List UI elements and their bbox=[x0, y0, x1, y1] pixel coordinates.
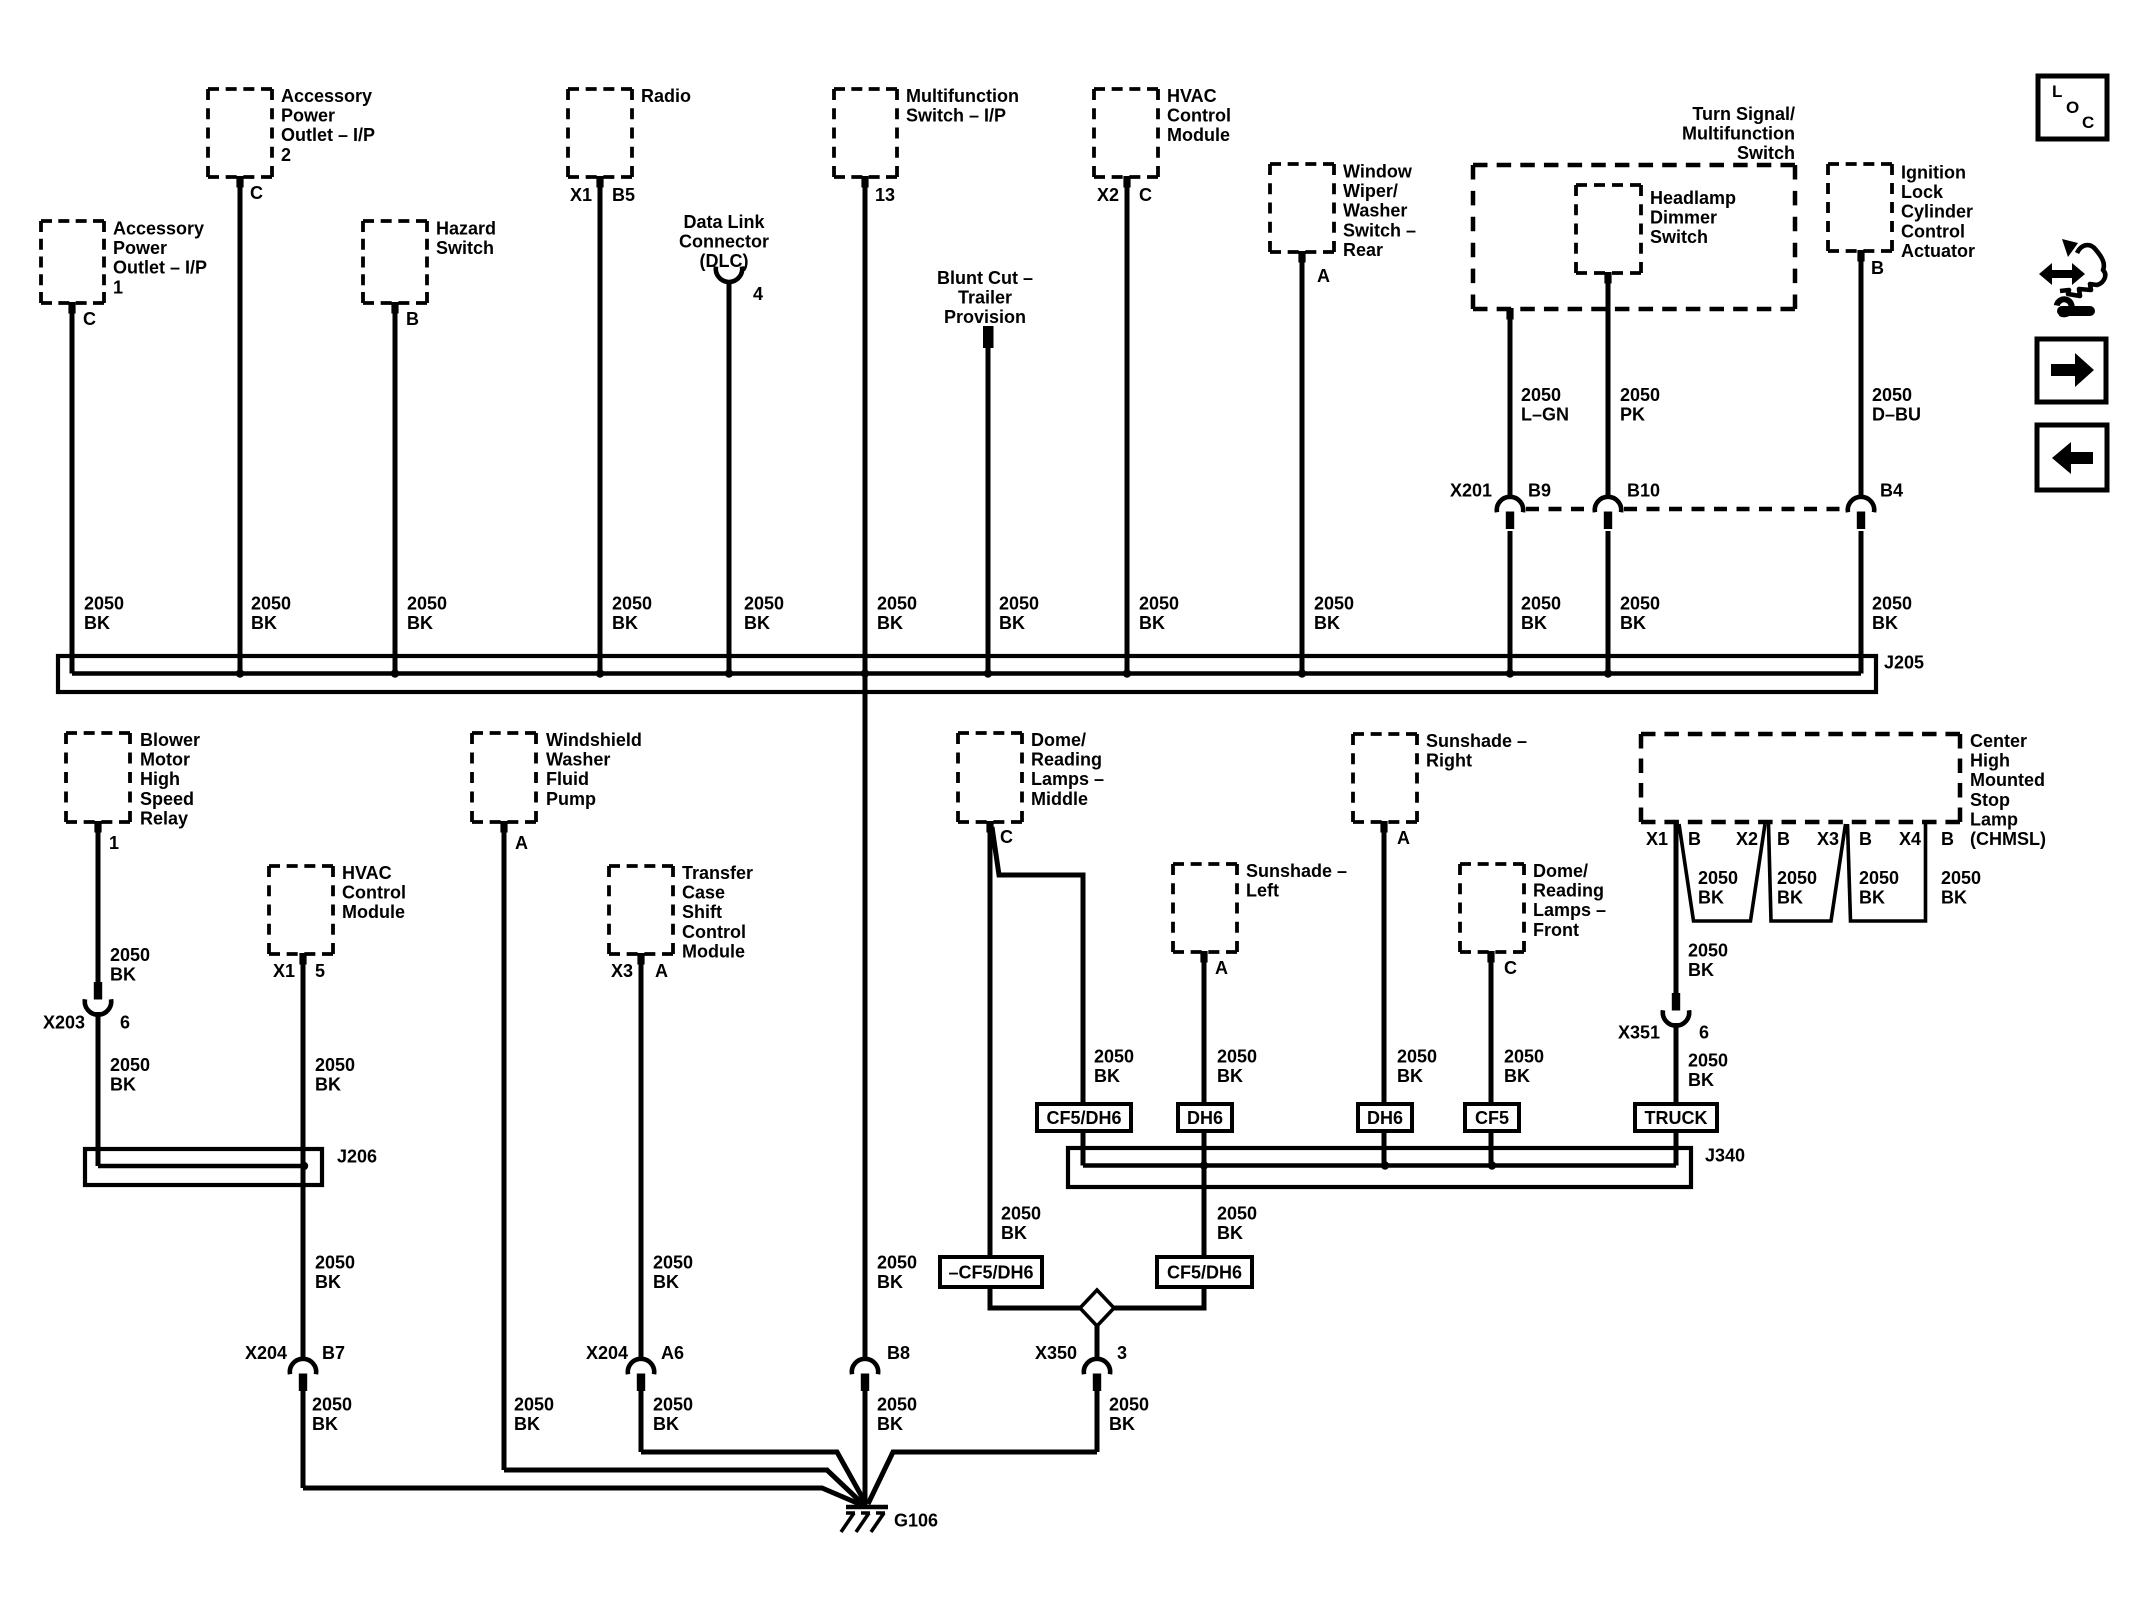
connector X201 cavity B10 bbox=[1595, 497, 1621, 512]
svg-text:IgnitionLockCylinderControlAct: IgnitionLockCylinderControlActuator bbox=[1901, 163, 1975, 261]
wire from lower CF5/DH6 to splice diamond X350 bbox=[1114, 1287, 1204, 1308]
svg-text:X3: X3 bbox=[611, 961, 633, 981]
svg-text:B10: B10 bbox=[1627, 481, 1660, 501]
connector box Center High Mounted Stop Lamp (CHMSL) bbox=[1641, 732, 1960, 737]
wire 2050 BK from dome middle lamp down to -CF5/DH6 bbox=[986, 821, 993, 833]
svg-text:B: B bbox=[1941, 829, 1954, 849]
option label TRUCK bbox=[1635, 1104, 1717, 1131]
wire 2050 BK group funnel 2 (X2-B to X3) bbox=[1769, 824, 1846, 921]
svg-text:B9: B9 bbox=[1528, 481, 1551, 501]
connector box Multifunction Switch - I/P bbox=[834, 87, 897, 91]
svg-text:4: 4 bbox=[753, 284, 763, 304]
svg-text:C: C bbox=[1504, 958, 1517, 978]
svg-text:X201: X201 bbox=[1450, 481, 1492, 501]
jump arrow icon bbox=[2039, 239, 2105, 314]
svg-text:B7: B7 bbox=[322, 1343, 345, 1363]
connector box Windshield Washer Fluid Pump bbox=[472, 731, 536, 735]
svg-text:C: C bbox=[1000, 827, 1013, 847]
connector box Dome/Reading Lamps - Middle bbox=[958, 731, 1022, 735]
wire 2050 BK from B8 to ground G106 bbox=[863, 1391, 868, 1508]
connector box Sunshade - Left bbox=[1173, 862, 1237, 866]
svg-text:DH6: DH6 bbox=[1187, 1108, 1223, 1128]
junction dot on J206 bbox=[300, 1162, 308, 1170]
splice diamond above X350 bbox=[1080, 1290, 1114, 1326]
svg-text:L: L bbox=[2052, 82, 2062, 101]
in-line connector X351 cavity 6 bbox=[1672, 993, 1680, 1011]
connector box Ignition Lock Cylinder Control Actuator bbox=[1828, 162, 1892, 166]
wire 2050 BK from dome front lamp to CF5 box bbox=[1487, 951, 1494, 963]
svg-text:X3: X3 bbox=[1817, 829, 1839, 849]
svg-text:–CF5/DH6: –CF5/DH6 bbox=[948, 1262, 1033, 1282]
junction dots on J205 bbox=[236, 669, 244, 677]
svg-text:CF5/DH6: CF5/DH6 bbox=[1046, 1108, 1121, 1128]
svg-text:B4: B4 bbox=[1880, 481, 1903, 501]
wire 2050 BK group funnel 3 (X3-B to X4) bbox=[1848, 822, 1926, 921]
svg-text:X1: X1 bbox=[570, 185, 592, 205]
wire 2050 BK from HVAC Control Module through J206 to X204 B7 bbox=[299, 953, 306, 965]
forward arrow legend box bbox=[2037, 339, 2106, 402]
svg-text:A6: A6 bbox=[661, 1343, 684, 1363]
option label DH6 (left) bbox=[1178, 1104, 1232, 1131]
svg-text:3: 3 bbox=[1117, 1343, 1127, 1363]
svg-text:B: B bbox=[406, 309, 419, 329]
in-line connector X204 cavity B7 bbox=[290, 1359, 316, 1374]
svg-text:X204: X204 bbox=[586, 1343, 628, 1363]
wire 2050 BK from Hazard Switch to J205 bbox=[391, 302, 398, 314]
wire 2050 BK from Radio to J205 bbox=[596, 176, 603, 188]
svg-text:B8: B8 bbox=[887, 1343, 910, 1363]
component box Headlamp Dimmer Switch (inside turn signal switch) bbox=[1576, 183, 1641, 187]
wire 2050 BK from HVAC Control Module to J205 bbox=[1123, 176, 1130, 188]
svg-text:X203: X203 bbox=[43, 1013, 85, 1033]
svg-text:CF5: CF5 bbox=[1475, 1108, 1509, 1128]
svg-text:6: 6 bbox=[1699, 1023, 1709, 1043]
svg-text:C: C bbox=[250, 183, 263, 203]
wire from TRUCK box to J340 bbox=[1674, 1131, 1679, 1166]
wire 2050 BK from X201 B9 to J205 bbox=[1508, 531, 1513, 674]
splice pack J205 bbox=[58, 656, 1876, 692]
wire 2050 BK from transfer case module to X204 A6 bbox=[637, 953, 644, 965]
svg-text:Radio: Radio bbox=[641, 86, 691, 106]
svg-text:X2: X2 bbox=[1097, 185, 1119, 205]
wire 2050 BK from Window Wiper/Washer Switch to J205 bbox=[1298, 251, 1305, 263]
option label CF5/DH6 (lower) bbox=[1157, 1257, 1252, 1287]
wire 2050 BK from X204 A6 to ground G106 bbox=[639, 1391, 644, 1452]
connector box Window Wiper/Washer Switch - Rear bbox=[1270, 162, 1334, 166]
in-line connector X201 dashed link bbox=[1526, 507, 1592, 512]
svg-text:X350: X350 bbox=[1035, 1343, 1077, 1363]
wire 2050 BK from X201 B4 to J205 bbox=[1859, 531, 1864, 674]
wire from splice diamond to X350 bbox=[1095, 1326, 1100, 1360]
wire 2050 BK from Accessory Power Outlet 1 to J205 bbox=[68, 302, 75, 314]
junction dots on J340 bbox=[1200, 1161, 1208, 1169]
connector box HVAC Control Module (top) bbox=[1094, 87, 1158, 91]
connector box Sunshade - Right bbox=[1353, 732, 1417, 736]
svg-text:X1: X1 bbox=[273, 961, 295, 981]
connector box Radio bbox=[568, 87, 632, 91]
wire from CF5 to J340 bbox=[1489, 1131, 1494, 1166]
in-line connector X350 cavity 3 bbox=[1084, 1359, 1110, 1374]
svg-text:X351: X351 bbox=[1618, 1023, 1660, 1043]
svg-text:A: A bbox=[1397, 828, 1410, 848]
option label -CF5/DH6 bbox=[940, 1257, 1042, 1287]
svg-text:A: A bbox=[1317, 266, 1330, 286]
wire from DH6 through J340 to CF5/DH6 bbox=[1202, 1131, 1207, 1257]
wire 2050 BK from CHMSL X1-B to X351 bbox=[1674, 822, 1679, 994]
option label CF5/DH6 bbox=[1037, 1104, 1131, 1131]
svg-text:HazardSwitch: HazardSwitch bbox=[436, 219, 496, 259]
svg-text:B: B bbox=[1871, 258, 1884, 278]
connector box Accessory Power Outlet - I/P 2 bbox=[208, 87, 272, 91]
connector X201 cavity B9 bbox=[1497, 497, 1523, 512]
option label CF5 bbox=[1465, 1104, 1519, 1131]
in-line connector X204 cavity A6 bbox=[628, 1359, 654, 1374]
svg-text:X204: X204 bbox=[245, 1343, 287, 1363]
wire 2050 BK from X351 to TRUCK option box bbox=[1674, 1023, 1679, 1104]
backward arrow legend box bbox=[2037, 425, 2107, 490]
svg-text:C: C bbox=[1139, 185, 1152, 205]
wire 2050 BK from blower relay to X203 bbox=[94, 821, 101, 833]
svg-text:B: B bbox=[1688, 829, 1701, 849]
svg-text:6: 6 bbox=[120, 1013, 130, 1033]
svg-text:X1: X1 bbox=[1646, 829, 1668, 849]
svg-text:X2: X2 bbox=[1736, 829, 1758, 849]
svg-text:C: C bbox=[2082, 113, 2094, 132]
svg-text:5: 5 bbox=[315, 961, 325, 981]
svg-text:A: A bbox=[515, 833, 528, 853]
svg-text:13: 13 bbox=[875, 185, 895, 205]
svg-text:O: O bbox=[2066, 98, 2079, 117]
wire 2050 BK from Multifunction Switch through J205 to B8 bbox=[861, 176, 868, 188]
connector box Dome/Reading Lamps - Front bbox=[1460, 862, 1524, 866]
svg-text:1: 1 bbox=[109, 833, 119, 853]
connector box HVAC Control Module (second row) bbox=[269, 864, 333, 868]
wire 2050 BK from X350 to ground G106 bbox=[1095, 1391, 1100, 1452]
svg-text:DH6: DH6 bbox=[1367, 1108, 1403, 1128]
svg-text:C: C bbox=[83, 309, 96, 329]
wire 2050 D-BU from Ignition Lock Cylinder to X201 B4 bbox=[1857, 250, 1864, 262]
svg-text:A: A bbox=[655, 961, 668, 981]
splice pack J206 bbox=[85, 1149, 322, 1185]
svg-text:X4: X4 bbox=[1899, 829, 1921, 849]
wire 2050 BK from X204 B7 to ground G106 bbox=[301, 1391, 306, 1488]
connector box Hazard Switch bbox=[363, 219, 427, 223]
wire 2050 BK from DLC to J205 bbox=[727, 281, 732, 674]
wire 2050 BK from sunshade right to DH6 box bbox=[1380, 821, 1387, 833]
connector box Accessory Power Outlet - I/P 1 bbox=[41, 219, 104, 223]
svg-text:J205: J205 bbox=[1884, 653, 1924, 673]
wire 2050 PK from Headlamp Dimmer Switch to X201 B10 bbox=[1604, 272, 1611, 284]
wire from DH6 right to J340 bbox=[1382, 1131, 1387, 1166]
wire 2050 BK from sunshade left to DH6 box bbox=[1200, 951, 1207, 963]
connector X201 cavity B4 bbox=[1848, 497, 1874, 512]
svg-text:B: B bbox=[1859, 829, 1872, 849]
option label DH6 (right) bbox=[1358, 1104, 1412, 1131]
wire 2050 BK from blunt cut to J205 bbox=[986, 347, 991, 674]
svg-text:G106: G106 bbox=[894, 1511, 938, 1531]
wire 2050 L-GN from Turn Signal Switch to X201 B9 bbox=[1506, 308, 1513, 320]
wire 2050 BK from X201 B10 to J205 bbox=[1606, 531, 1611, 674]
wire from CF5/DH6 box to J340 bbox=[1081, 1131, 1086, 1166]
svg-text:MultifunctionSwitch – I/P: MultifunctionSwitch – I/P bbox=[906, 86, 1019, 126]
svg-text:B5: B5 bbox=[612, 185, 635, 205]
ground G106 bbox=[841, 1507, 888, 1532]
svg-text:TRUCK: TRUCK bbox=[1645, 1108, 1708, 1128]
connector box Transfer Case Shift Control Module bbox=[609, 864, 673, 868]
svg-text:A: A bbox=[1215, 958, 1228, 978]
LOC legend box bbox=[2038, 76, 2107, 139]
wire from -CF5/DH6 to splice diamond X350 bbox=[990, 1287, 1080, 1308]
wire 2050 BK from washer pump to ground G106 bbox=[500, 821, 507, 833]
in-line connector X203 cavity 6 bbox=[94, 982, 102, 1000]
branch wire from dome middle pin to CF5/DH6 option box bbox=[992, 827, 1083, 1106]
wire 2050 BK from X203 to J206 bbox=[96, 1012, 101, 1166]
svg-text:J340: J340 bbox=[1705, 1146, 1745, 1166]
in-line connector cavity B8 (multifunction switch wire) bbox=[852, 1359, 878, 1374]
svg-text:CF5/DH6: CF5/DH6 bbox=[1167, 1262, 1242, 1282]
splice pack J340 bbox=[1068, 1148, 1691, 1187]
svg-text:B: B bbox=[1777, 829, 1790, 849]
connector box Blower Motor High Speed Relay bbox=[66, 731, 130, 735]
svg-text:J206: J206 bbox=[337, 1147, 377, 1167]
wire 2050 BK from Accessory Power Outlet 2 to J205 bbox=[236, 176, 243, 188]
wire 2050 BK group funnel 1 (X1-B to X2) bbox=[1679, 824, 1765, 921]
